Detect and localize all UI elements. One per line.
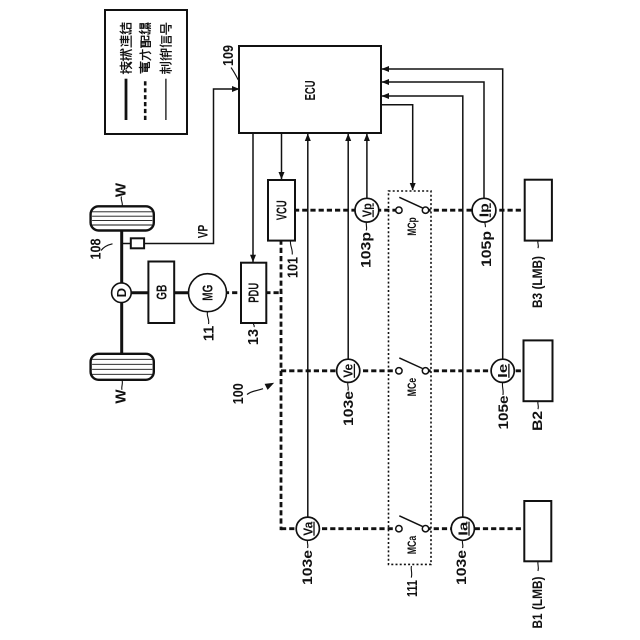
svg-text:103p: 103p xyxy=(357,232,373,268)
svg-text:103e: 103e xyxy=(340,391,356,426)
svg-text:Va: Va xyxy=(300,521,315,536)
svg-text:MCa: MCa xyxy=(405,536,419,555)
svg-text:105p: 105p xyxy=(478,231,494,267)
svg-text:W: W xyxy=(112,182,129,197)
svg-text:ECU: ECU xyxy=(302,80,319,100)
svg-text:13: 13 xyxy=(246,329,262,345)
svg-text:Vp: Vp xyxy=(359,203,374,217)
svg-text:103e: 103e xyxy=(299,550,315,585)
svg-text:11: 11 xyxy=(201,326,217,341)
svg-text:MG: MG xyxy=(200,285,217,301)
svg-text:Ia: Ia xyxy=(455,521,470,536)
svg-text:100: 100 xyxy=(231,383,247,404)
svg-text:MCp: MCp xyxy=(405,217,419,236)
svg-text:B3 (LMB): B3 (LMB) xyxy=(529,256,545,308)
svg-text:B2: B2 xyxy=(529,411,545,431)
svg-text:108: 108 xyxy=(88,239,104,260)
svg-text:D: D xyxy=(114,288,129,297)
svg-text:105e: 105e xyxy=(495,395,511,429)
svg-text:101: 101 xyxy=(285,257,301,278)
svg-text:Ve: Ve xyxy=(341,364,356,378)
svg-text:Ip: Ip xyxy=(477,203,492,217)
svg-text:Ie: Ie xyxy=(495,364,510,378)
svg-text:103e: 103e xyxy=(453,550,469,585)
svg-text:B1 (LMB): B1 (LMB) xyxy=(529,577,545,629)
svg-text:111: 111 xyxy=(405,580,421,597)
svg-text:GB: GB xyxy=(154,285,171,300)
svg-text:VCU: VCU xyxy=(275,200,291,220)
svg-text:W: W xyxy=(112,389,129,404)
svg-text:PDU: PDU xyxy=(247,283,263,303)
svg-text:MCe: MCe xyxy=(405,378,419,397)
svg-text:109: 109 xyxy=(221,45,237,66)
svg-text:VP: VP xyxy=(194,225,210,239)
